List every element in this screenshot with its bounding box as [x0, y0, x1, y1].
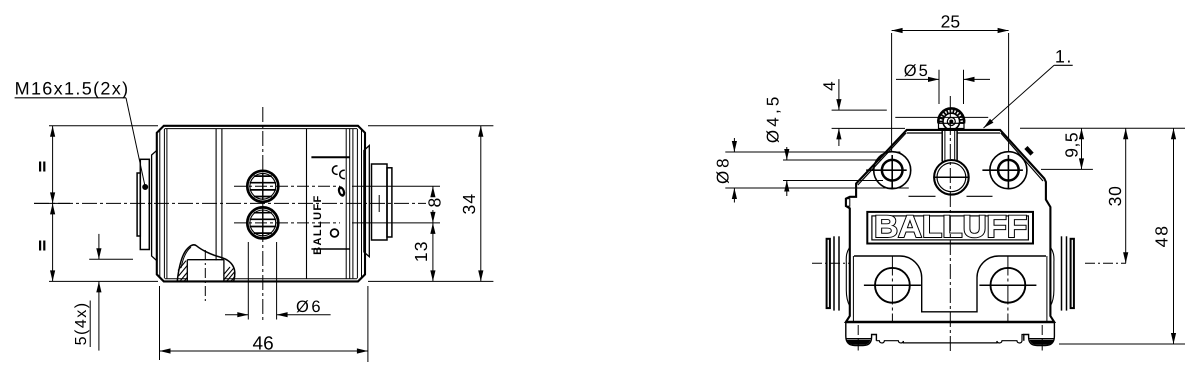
svg-text:Ø5: Ø5 — [904, 62, 930, 80]
svg-text:13: 13 — [411, 240, 431, 262]
svg-text:25: 25 — [941, 12, 960, 32]
svg-text:48: 48 — [1152, 224, 1172, 247]
svg-text:46: 46 — [253, 333, 274, 354]
svg-text:4: 4 — [820, 81, 839, 90]
svg-text:1.: 1. — [1055, 46, 1073, 66]
svg-text:34: 34 — [459, 193, 479, 215]
svg-text:5(4x): 5(4x) — [73, 301, 90, 345]
svg-text:Ø6: Ø6 — [296, 298, 323, 316]
svg-text:9,5: 9,5 — [1062, 132, 1082, 158]
svg-text:Ø8: Ø8 — [714, 155, 733, 184]
svg-text:8: 8 — [425, 198, 445, 208]
svg-text:Ø4,5: Ø4,5 — [764, 93, 783, 143]
svg-text:30: 30 — [1105, 185, 1125, 206]
svg-text:M16x1.5(2x): M16x1.5(2x) — [15, 79, 130, 99]
